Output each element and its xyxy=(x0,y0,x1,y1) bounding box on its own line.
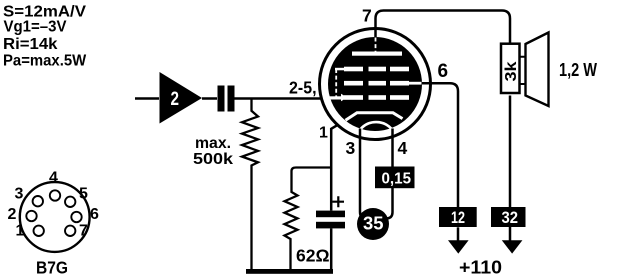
svg-text:1: 1 xyxy=(319,125,328,142)
svg-text:35: 35 xyxy=(363,213,384,234)
svg-text:Vg1=–3V: Vg1=–3V xyxy=(4,19,67,36)
svg-text:4: 4 xyxy=(49,169,58,186)
svg-text:7: 7 xyxy=(79,222,88,239)
svg-text:62Ω: 62Ω xyxy=(296,246,330,266)
svg-text:3: 3 xyxy=(346,138,356,158)
svg-text:4: 4 xyxy=(398,138,408,158)
svg-text:Ri=14k: Ri=14k xyxy=(3,36,58,53)
svg-text:2: 2 xyxy=(8,206,17,223)
svg-text:B7G: B7G xyxy=(36,258,68,278)
svg-text:+110: +110 xyxy=(459,257,502,278)
svg-text:500k: 500k xyxy=(193,151,233,168)
svg-text:2: 2 xyxy=(171,88,180,110)
svg-text:3: 3 xyxy=(15,185,24,202)
svg-text:32: 32 xyxy=(502,208,519,227)
svg-text:3k: 3k xyxy=(503,61,520,81)
svg-text:6: 6 xyxy=(438,61,449,82)
svg-text:1,2 W: 1,2 W xyxy=(559,60,597,80)
svg-text:5: 5 xyxy=(79,185,88,202)
svg-text:1: 1 xyxy=(16,222,25,239)
svg-text:2-5,: 2-5, xyxy=(289,77,317,97)
svg-text:12: 12 xyxy=(451,208,465,227)
svg-text:6: 6 xyxy=(90,206,99,223)
svg-text:max.: max. xyxy=(195,135,231,152)
svg-text:Pa=max.5W: Pa=max.5W xyxy=(3,52,87,69)
svg-text:7: 7 xyxy=(362,5,372,25)
svg-text:0,15: 0,15 xyxy=(382,171,412,188)
